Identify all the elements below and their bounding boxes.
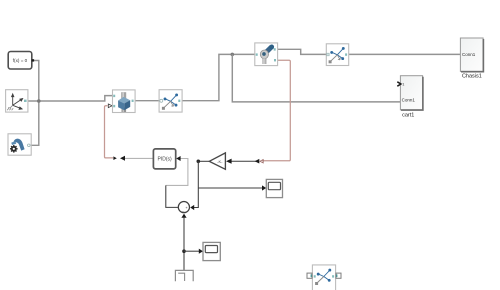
wire junction down to sum right input (194, 161, 199, 207)
arrowhead pair break at PID output / red line (113, 156, 116, 160)
arrowhead solid at red break near gain (255, 159, 260, 164)
wire gain output to junction (198, 160, 209, 162)
rigid transform RT1 (159, 90, 182, 112)
svg-text:f(x) = 0: f(x) = 0 (13, 58, 28, 63)
subsystem cart1 (397, 76, 423, 119)
gain block -K- (flipped) (209, 153, 225, 169)
wire red revolute q sensor dangling (262, 60, 290, 161)
step source block (clipped) (175, 270, 193, 281)
PID controller block (153, 149, 175, 169)
wire branch to Scope1 (198, 187, 262, 189)
wire sum output up to PID input (166, 159, 188, 186)
wire solver config to left bus (34, 61, 39, 101)
subsystem Chasis1 (460, 38, 483, 80)
arrowhead into gain input (226, 159, 232, 164)
wire world frame to prismatic B (28, 96, 112, 101)
wire mechanism config to left bus (31, 102, 39, 146)
scope Scope2 (203, 242, 220, 260)
svg-text:Conn1: Conn1 (462, 52, 476, 57)
wire red dangling to prismatic P actuation (105, 106, 114, 158)
wire revolute F to RT2 B (278, 49, 327, 54)
wire gain input from red break (231, 160, 259, 162)
node junction revolute B wire (231, 53, 235, 57)
rigid transform RT2 (326, 44, 348, 66)
svg-text:Chasis1: Chasis1 (462, 74, 482, 80)
wire prismatic F to rigid transform RT1 (135, 100, 159, 102)
arrowhead into sum right (190, 205, 194, 210)
node junction step wire (182, 249, 186, 253)
wire PID output dangling left (125, 157, 154, 159)
node junction left bus (37, 99, 41, 103)
node junction gain output (197, 160, 201, 164)
scope Scope1 (266, 179, 282, 197)
wire RT1 F up to revolute B (182, 54, 255, 100)
svg-text:PID(s): PID(s) (158, 157, 173, 163)
svg-text:1: 1 (402, 82, 404, 87)
svg-text:-K-: -K- (217, 159, 223, 164)
port bracket left of RT3 (307, 273, 312, 278)
arrowhead hollow into prismatic P port (108, 104, 112, 108)
svg-text:Conn1: Conn1 (402, 98, 416, 103)
wire junction down to cart1 Conn1 (232, 54, 400, 102)
sum block (178, 202, 189, 214)
wire RT2 F to Chasis1 Conn1 (349, 53, 461, 55)
prismatic joint block (113, 90, 136, 113)
arrowhead into Scope1 (262, 185, 266, 190)
wire step source up to sum bottom input (183, 218, 185, 271)
solver configuration block f(x)=0 (8, 52, 34, 70)
arrowhead into Scope2 (199, 249, 203, 254)
svg-text:cart1: cart1 (402, 112, 414, 118)
world frame block (6, 90, 28, 112)
revolute joint block (255, 43, 278, 66)
arrowhead into sum bottom (181, 214, 186, 218)
port bracket right of RT3 (336, 273, 341, 278)
arrowhead hollow red break (260, 160, 263, 163)
mechanism configuration block (8, 134, 31, 155)
wire junction to Scope2 (184, 250, 199, 252)
rigid transform RT3 (clipped at bottom) (312, 265, 335, 290)
arrowhead into PID input (176, 156, 180, 161)
